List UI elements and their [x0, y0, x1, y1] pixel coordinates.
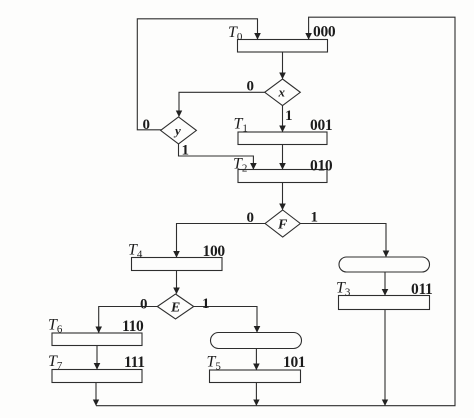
svg-text:T3: T3 — [336, 280, 351, 299]
decision diamond x — [265, 79, 301, 106]
wire: decision y exit 1 to state box T2 — [179, 144, 254, 169]
svg-text:111: 111 — [124, 354, 145, 371]
wire: decision F exit 0 to state box T4 — [177, 224, 266, 258]
svg-text:E: E — [170, 301, 180, 316]
wire: right oval to state box T3 — [384, 272, 386, 295]
state box T2 — [238, 170, 327, 183]
svg-text:1: 1 — [182, 143, 190, 159]
wire: middle oval to state box T5 — [255, 349, 257, 370]
svg-text:1: 1 — [202, 296, 210, 312]
svg-text:T4: T4 — [128, 242, 143, 261]
wire: bottom merge line, right feedback up and into state box T0 — [96, 17, 455, 406]
svg-text:0: 0 — [143, 117, 151, 133]
conditional output oval right — [339, 257, 430, 272]
svg-text:101: 101 — [283, 354, 305, 371]
wire: T6 to T7 — [96, 346, 98, 370]
wire: T7 down to bottom merge line — [95, 383, 97, 406]
svg-text:1: 1 — [311, 210, 319, 226]
svg-text:T0: T0 — [228, 24, 243, 43]
svg-text:y: y — [173, 123, 181, 138]
svg-text:011: 011 — [411, 281, 433, 298]
wire: T2 to decision F — [282, 183, 284, 210]
svg-text:110: 110 — [122, 318, 144, 335]
svg-text:T1: T1 — [234, 116, 248, 135]
state box T5 — [210, 370, 301, 383]
state box T3 — [339, 296, 430, 310]
svg-text:T6: T6 — [48, 317, 63, 336]
wire: T1 to T2 — [282, 145, 284, 170]
wire: decision F exit 1 to right conditional output — [300, 224, 386, 257]
wire: T5 down to bottom merge line — [255, 383, 257, 406]
svg-text:010: 010 — [310, 158, 333, 175]
state box T1 — [238, 132, 327, 145]
svg-text:T2: T2 — [233, 156, 247, 175]
svg-text:001: 001 — [310, 117, 332, 134]
svg-text:1: 1 — [285, 108, 293, 124]
wire: T3 down to bottom merge line — [384, 310, 386, 406]
state box T6 — [52, 333, 142, 346]
wire: decision x exit 1 to state box T1 — [282, 106, 284, 132]
svg-text:0: 0 — [247, 79, 255, 95]
wire: T4 to decision E — [176, 271, 178, 294]
svg-text:T7: T7 — [48, 353, 63, 372]
svg-text:F: F — [277, 218, 288, 233]
wire: feedback from decision y exit 0 up and into state box T0 — [137, 19, 257, 130]
wire: decision E exit 0 to state box T6 — [99, 307, 158, 333]
svg-text:T5: T5 — [207, 354, 222, 373]
state box T0 — [238, 40, 328, 53]
svg-text:100: 100 — [203, 243, 226, 260]
wire: T0 to decision x — [282, 52, 284, 79]
decision diamond E — [157, 294, 193, 319]
decision diamond y — [161, 117, 197, 144]
decision diamond F — [265, 210, 300, 237]
wire: decision E exit 1 to middle conditional output — [194, 307, 257, 333]
svg-text:0: 0 — [247, 210, 255, 226]
state box T7 — [52, 370, 142, 383]
svg-text:0: 0 — [140, 297, 148, 313]
state box T4 — [132, 258, 223, 271]
svg-text:000: 000 — [313, 24, 336, 41]
wire: decision x exit 0 to decision y — [179, 92, 265, 116]
svg-text:x: x — [278, 85, 286, 100]
conditional output oval middle — [211, 333, 302, 349]
